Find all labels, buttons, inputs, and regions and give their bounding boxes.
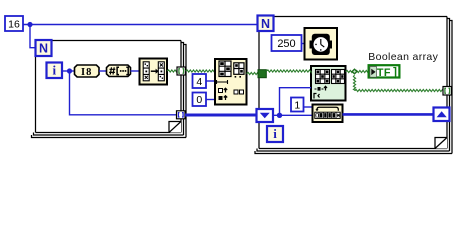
constant 1 [291,98,304,112]
wire: rotate node to indicator (green zigzag) [346,70,369,72]
wire: 1 to rotate-bits node [304,106,313,108]
conversion node To Byte Integer I8 [75,65,100,77]
function node Reverse 1D Array [140,59,168,85]
constant 4 [193,74,207,88]
wire: branch down to left loop count terminal [30,25,36,48]
svg-text:0: 0 [196,94,202,106]
junction dot [27,22,32,27]
count terminal N (left loop) [36,40,52,56]
auto-index output tunnel (boolean array) [177,67,186,75]
junction diamond on boolean array wire [351,68,358,75]
indicator terminal Boolean array [TF] [369,65,400,77]
right shift register [434,108,450,122]
conversion node Number To Boolean Array [107,65,131,77]
svg-text:N: N [39,42,48,56]
constant 250 [272,35,302,51]
svg-text:250: 250 [277,38,295,50]
output tunnel (boolean array) [443,87,452,96]
function node Rotate (bitwise) [313,105,343,123]
input tunnel (boolean array, solid green) [258,70,266,78]
function node Array Subset [215,59,247,105]
wire: 250 to wait function [302,43,305,45]
wire: 16 constant to right loop count terminal [23,24,259,26]
wire: i to I8 conversion [62,70,75,72]
svg-text:I8: I8 [81,67,92,78]
wire: shift register value up-branch to rotate node [280,88,312,116]
for loop 1 border [52,40,182,42]
svg-text:16: 16 [8,18,20,30]
left shift register [257,109,274,122]
constant 16 [5,16,23,31]
wire: i branch down to bottom tunnel [70,71,177,115]
wire: I8 to Number To Boolean Array [99,70,107,72]
svg-text:]: ] [393,67,397,79]
wire: rotate node in (green zigzag) [266,70,311,72]
svg-text:N: N [261,17,270,31]
wire: to Reverse 1D Array [131,70,140,72]
wire: i-array to left shift register (thick blue) [185,114,257,117]
wire: 4 to array node [206,80,215,82]
wire: down and right to output tunnel (green zigzag) [353,75,355,91]
svg-text:1: 1 [294,99,300,111]
wire: boolean array between loops (green zigzag) [186,70,216,72]
svg-text:Boolean array: Boolean array [368,51,438,63]
count terminal N (right loop) [258,16,274,32]
svg-text:i: i [52,62,56,77]
iteration terminal i (right loop) [267,126,283,142]
wire: boolean array to output tunnel (green zigzag) [167,70,177,72]
tunnel for i array (bottom) [177,111,186,119]
svg-text:0: 0 [315,113,319,120]
wire: 0 to array node [206,99,215,101]
junction dot on i wire [67,68,72,73]
wire: array node to right loop tunnel (green zigzag) [247,72,259,74]
function node Wait (ms), wristwatch icon [305,28,338,60]
wire: shift register to rotate-bits node [273,114,313,116]
iteration terminal i (left loop) [47,63,63,79]
svg-text:4: 4 [196,76,202,88]
for loop 2 border [273,16,447,18]
svg-text:i: i [273,126,277,141]
svg-text:TF: TF [377,67,391,79]
constant 0 [193,93,207,107]
function node Rotate 1D Array [311,66,346,101]
wire: rotate-bits out to right shift register [343,113,434,116]
